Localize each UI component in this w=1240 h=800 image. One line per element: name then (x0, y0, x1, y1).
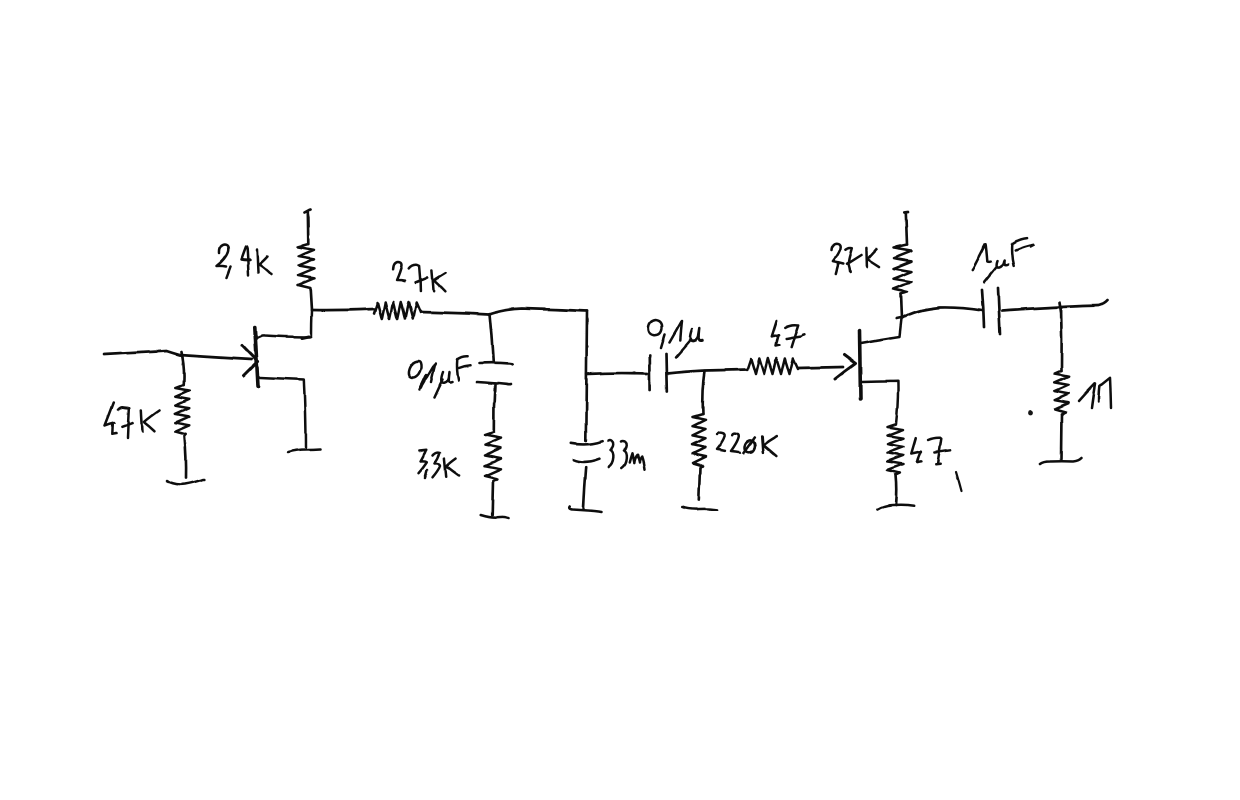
wire R5 top (703, 371, 705, 414)
label 0,1uF (408, 356, 470, 398)
wire C4-D (1002, 301, 1108, 311)
wire R5 bottom (699, 468, 700, 500)
wire R2 bottom lead (185, 437, 187, 478)
label 47 source (911, 438, 950, 464)
capacitor C1 0,1uF (477, 363, 513, 385)
resistor R1 2,4K (298, 244, 314, 290)
ground Q1 source (288, 449, 320, 452)
wire supply 2 (904, 212, 908, 245)
node D (1060, 303, 1062, 313)
dot mark (1028, 411, 1033, 416)
ground R5 (682, 507, 717, 510)
resistor R2 47K (175, 385, 189, 437)
wire R3-B (421, 312, 489, 315)
transistor Q1 (255, 327, 258, 386)
resistor R8 1M (1055, 371, 1069, 415)
resistor R5 220K (693, 414, 706, 468)
ground R9 (877, 505, 914, 510)
wire B down (490, 315, 494, 363)
resistor R3 27K (374, 303, 421, 320)
wire C1-R4 (494, 384, 495, 432)
transistor Q2 gate arrow (835, 355, 856, 379)
wire C2 bottom (584, 467, 587, 508)
ground R4 (481, 515, 508, 519)
resistor R6 47 (747, 359, 798, 375)
transistor Q2 (860, 330, 861, 399)
wire node B (489, 309, 588, 315)
transistor Q1 gate arrow (243, 346, 259, 377)
wire R6-Q2 (798, 367, 843, 368)
wire R8 top (1060, 307, 1063, 371)
label 220K (717, 432, 777, 456)
wire Q2 drain (861, 319, 902, 344)
wire B2-C3 (587, 372, 648, 376)
resistor R7 2,7K (894, 245, 912, 294)
wire supply 1 (305, 210, 311, 245)
wire A-R3 (312, 309, 374, 310)
resistor R1 lead bottom (311, 290, 312, 310)
resistor R4 3,3K (485, 432, 501, 481)
label 47K (105, 403, 160, 438)
label 2,4K (217, 245, 272, 278)
node Q2 drain junction (897, 317, 906, 319)
label 1M (1079, 378, 1111, 408)
wire C3-C (667, 370, 747, 374)
ground C2 (570, 507, 602, 513)
wire Q1 source (260, 378, 306, 448)
resistor R9 47 (888, 424, 904, 475)
label 27K (393, 262, 446, 291)
label 2,7K (832, 243, 880, 274)
wire Q1 drain (255, 310, 312, 338)
label 33n (609, 440, 645, 469)
capacitor C4 1uF (982, 288, 1000, 334)
stray stroke (956, 472, 962, 492)
ground R8 (1040, 458, 1082, 464)
label 3,3K (419, 450, 460, 478)
ground R2 (167, 480, 205, 485)
wire R4 bottom (491, 481, 494, 515)
wire Q2 source (861, 381, 899, 424)
wire R9 bottom (894, 475, 897, 505)
wire R2 top lead (181, 352, 184, 385)
label 1uF (972, 238, 1033, 283)
label 0,1u (648, 320, 703, 358)
wire input (104, 351, 252, 360)
wire B2 down (586, 311, 587, 441)
wire Q2-C4 (903, 307, 983, 318)
resistor R7 lead bottom (902, 294, 903, 318)
node drain corner (302, 337, 309, 339)
capacitor C3 0,1u (649, 354, 667, 392)
label 47 series (772, 321, 805, 347)
capacitor C2 33n (571, 441, 602, 462)
wire R8 bottom (1060, 414, 1063, 459)
